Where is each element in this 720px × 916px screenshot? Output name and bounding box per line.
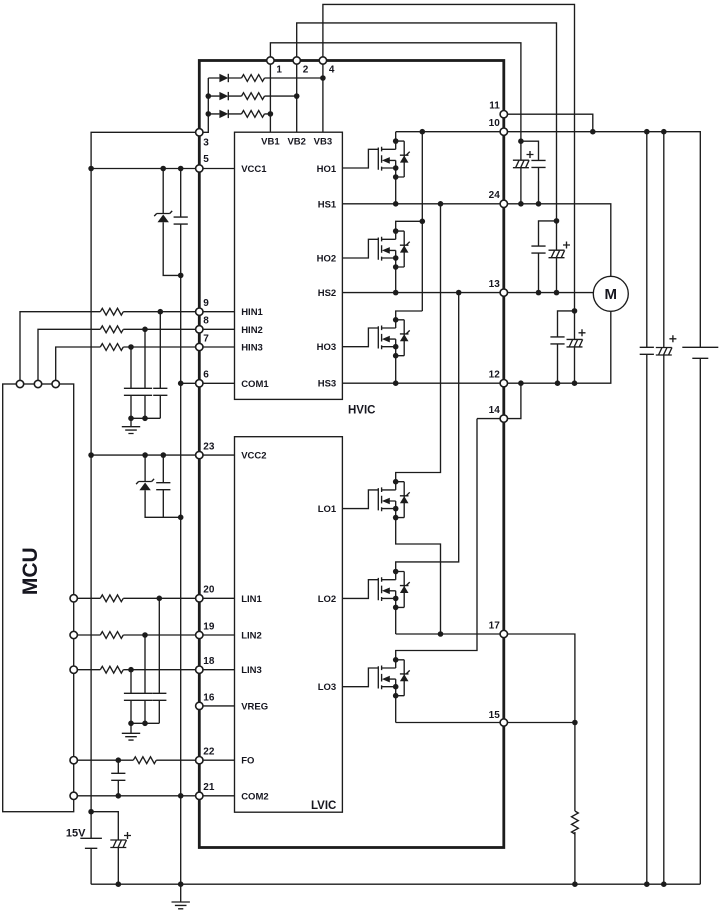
wire HS2 row pin 13 xyxy=(342,292,593,294)
pin 1 xyxy=(267,57,274,64)
capacitor C1 electrolytic bootstrap 1 xyxy=(513,160,529,168)
pin 4 xyxy=(319,57,326,64)
capacitor C7 DC link film xyxy=(640,347,654,354)
ground HIN filter xyxy=(122,418,140,433)
MOSFET Q2 (HO2 high side) xyxy=(342,219,425,296)
wire P drop to HO2/HO3 drains xyxy=(421,132,423,311)
resistor R10 shunt xyxy=(572,811,579,834)
wire pin 15 row xyxy=(396,722,575,724)
pin 17 xyxy=(500,630,507,637)
module boundary IPM xyxy=(199,61,504,848)
resistor R2 bootstrap xyxy=(242,93,265,100)
pin 19 xyxy=(196,631,203,638)
wire shunt leg to N rail xyxy=(574,723,576,885)
svg-text:VB2: VB2 xyxy=(287,137,305,148)
svg-text:12: 12 xyxy=(489,370,501,381)
MCU terminals xyxy=(16,380,77,799)
pin 16 xyxy=(196,702,203,709)
ground LIN filter xyxy=(122,723,140,740)
svg-text:20: 20 xyxy=(203,585,215,596)
svg-text:VCC1: VCC1 xyxy=(241,164,267,175)
diode D1 bootstrap xyxy=(219,74,228,82)
capacitor C12 HIN3 filter xyxy=(124,388,138,395)
wire HIN1 row pin 9 xyxy=(20,312,235,384)
capacitor C16 LIN3 filter xyxy=(124,693,138,700)
resistor R6 HIN3 xyxy=(100,344,123,351)
pin 6 xyxy=(196,380,203,387)
svg-text:COM1: COM1 xyxy=(241,379,269,390)
wire VCC1 row pin 5 xyxy=(91,168,234,170)
wire DC link electrolytic leads xyxy=(663,132,665,885)
svg-text:VB3: VB3 xyxy=(314,137,332,148)
wire HIN2 row pin 8 xyxy=(38,329,235,384)
svg-text:FO: FO xyxy=(241,756,254,767)
svg-text:13: 13 xyxy=(489,279,501,290)
pin number labels xyxy=(203,65,500,794)
pin 13 xyxy=(500,289,507,296)
capacitor C8 DC link electrolytic xyxy=(656,348,672,356)
svg-text:VB1: VB1 xyxy=(261,137,280,148)
IC pin name labels xyxy=(241,137,337,803)
svg-text:HO1: HO1 xyxy=(317,164,337,175)
resistor R3 bootstrap xyxy=(242,111,265,118)
motor M xyxy=(593,276,628,311)
zener D4 VCC1 clamp xyxy=(154,169,181,276)
resistor R9 LIN3 xyxy=(100,666,123,673)
resistor R5 HIN2 xyxy=(100,326,123,333)
wire VB1 net: pin 1 loop to bootstrap cap 1 xyxy=(270,43,521,141)
svg-text:15: 15 xyxy=(489,710,501,721)
svg-text:VREG: VREG xyxy=(241,701,268,712)
svg-text:21: 21 xyxy=(203,782,215,793)
svg-text:6: 6 xyxy=(203,370,209,381)
pin 23 xyxy=(196,451,203,458)
svg-text:7: 7 xyxy=(203,334,209,345)
capacitor C4 electrolytic bootstrap 2 xyxy=(549,250,565,258)
svg-text:18: 18 xyxy=(203,656,215,667)
resistor R4 HIN1 xyxy=(100,308,123,315)
svg-text:4: 4 xyxy=(329,65,335,76)
diode D2 bootstrap xyxy=(219,92,228,100)
svg-text:22: 22 xyxy=(203,747,215,758)
LVIC U2 box xyxy=(235,437,343,813)
pin 9 xyxy=(196,308,203,315)
capacitor C2 bootstrap 1 xyxy=(531,160,545,167)
wire bootstrap cap pair 1 leads xyxy=(521,141,539,204)
capacitor C14 LIN1 filter xyxy=(152,693,166,700)
wire LIN3 row pin 18 xyxy=(74,669,235,671)
pin 18 xyxy=(196,666,203,673)
svg-text:HS1: HS1 xyxy=(318,199,337,210)
svg-text:COM2: COM2 xyxy=(241,791,268,802)
svg-text:5: 5 xyxy=(203,154,209,165)
wire COM1 row pin 6 xyxy=(181,382,235,384)
svg-text:24: 24 xyxy=(489,190,501,201)
wire 15V supply node xyxy=(91,812,118,885)
pin 5 xyxy=(196,165,203,172)
wire pin 14 jog to HS3 xyxy=(477,383,521,418)
svg-text:HIN1: HIN1 xyxy=(241,307,263,318)
svg-text:LO2: LO2 xyxy=(318,594,336,605)
pin circles on module boundary xyxy=(196,57,508,800)
wire HIN3 row pin 7 xyxy=(56,347,235,384)
MOSFET Q5 (LO2 low side) xyxy=(342,290,461,634)
pin 3 xyxy=(196,129,203,136)
svg-text:8: 8 xyxy=(203,316,209,327)
svg-text:17: 17 xyxy=(489,620,501,631)
wire LIN filter cap legs xyxy=(131,598,159,723)
svg-text:LIN2: LIN2 xyxy=(241,631,262,642)
svg-text:LIN1: LIN1 xyxy=(241,594,262,605)
wire COM2 row pin 21 xyxy=(74,795,235,797)
svg-text:HVIC: HVIC xyxy=(348,405,375,417)
wire bootstrap cap pair 3 leads xyxy=(558,311,575,383)
wire bootstrap row 1 xyxy=(208,77,323,79)
capacitor C6 electrolytic bootstrap 3 xyxy=(567,339,583,347)
pin 8 xyxy=(196,326,203,333)
wire bootstrap cap pair 2 leads xyxy=(539,221,557,293)
svg-text:2: 2 xyxy=(303,65,309,76)
wire VREG row pin 16 xyxy=(199,705,234,707)
svg-text:HO2: HO2 xyxy=(317,254,337,265)
svg-text:23: 23 xyxy=(203,442,215,453)
resistor R1 bootstrap xyxy=(242,75,265,82)
svg-text:11: 11 xyxy=(489,101,500,112)
capacitor C18 electrolytic 15V xyxy=(110,840,126,848)
svg-text:19: 19 xyxy=(203,621,215,632)
svg-text:15V: 15V xyxy=(66,828,86,840)
resistor R8 LIN2 xyxy=(100,632,123,639)
svg-text:10: 10 xyxy=(489,118,501,129)
ground main xyxy=(172,884,190,909)
resistor R7 LIN1 xyxy=(100,595,123,602)
wire N rail bottom xyxy=(91,883,700,885)
wire LIN1 row pin 20 xyxy=(74,597,235,599)
pin 11 xyxy=(500,111,507,118)
pin 2 xyxy=(293,57,300,64)
svg-text:HS2: HS2 xyxy=(318,288,336,299)
wire bootstrap common from pin 3 xyxy=(199,78,208,132)
svg-text:1: 1 xyxy=(276,65,282,76)
svg-text:LO3: LO3 xyxy=(318,682,336,693)
svg-text:16: 16 xyxy=(203,692,215,703)
svg-text:MCU: MCU xyxy=(19,547,42,595)
wire DC link film cap leads xyxy=(646,132,648,885)
capacitor C15 LIN2 filter xyxy=(138,693,152,700)
MOSFET Q3 (HO3 high side) xyxy=(342,311,422,386)
pin 7 xyxy=(196,343,203,350)
svg-text:3: 3 xyxy=(203,138,209,149)
wire VCC rail from pin 3 xyxy=(91,132,199,811)
pin 24 xyxy=(500,200,507,207)
capacitor C11 HIN2 filter xyxy=(138,388,152,395)
wire HIN filter cap legs xyxy=(131,312,160,419)
svg-text:LO1: LO1 xyxy=(318,504,337,515)
wire pin 11 jog to P rail xyxy=(504,114,593,132)
capacitor C3 bootstrap 2 xyxy=(531,246,545,253)
op. MOSFET Q1 (HO1 high side) xyxy=(342,132,409,207)
wire pin 17 row xyxy=(396,634,575,723)
svg-text:LIN3: LIN3 xyxy=(241,665,262,676)
wire LIN2 row pin 19 xyxy=(74,634,235,636)
pin 20 xyxy=(196,595,203,602)
MOSFET Q6 (LO3 low side) xyxy=(342,419,477,723)
wire VB3 net: pin 4 loop to bootstrap cap 3 xyxy=(323,4,575,311)
wire bootstrap row 2 xyxy=(208,95,296,97)
wire VCC2 row pin 23 xyxy=(91,454,234,456)
HVIC U1 box xyxy=(235,132,343,399)
battery B1 DC bus xyxy=(682,347,718,884)
capacitor C13 VCC2 xyxy=(156,455,170,517)
svg-text:14: 14 xyxy=(489,405,501,416)
svg-text:HS3: HS3 xyxy=(318,379,336,390)
capacitor C9 VCC1 xyxy=(174,169,188,276)
svg-text:9: 9 xyxy=(203,298,209,309)
battery 15V xyxy=(80,812,102,885)
capacitor C17 FO filter xyxy=(111,760,125,796)
MCU box xyxy=(3,384,74,812)
svg-text:M: M xyxy=(605,286,618,303)
pin 10 xyxy=(500,128,507,135)
pin 22 xyxy=(196,757,203,764)
svg-text:HO3: HO3 xyxy=(317,342,337,353)
wire VB2 net: pin 2 loop to bootstrap cap 2 xyxy=(297,23,557,221)
svg-text:LVIC: LVIC xyxy=(311,800,336,812)
wire bootstrap row 3 xyxy=(208,113,270,115)
pin 21 xyxy=(196,792,203,799)
capacitor C10 HIN1 filter xyxy=(153,388,167,395)
svg-text:HIN2: HIN2 xyxy=(241,325,263,336)
wire HS3 row pin 12 xyxy=(342,311,610,383)
svg-text:VCC2: VCC2 xyxy=(241,451,266,462)
wire HS1 row pin 24 xyxy=(342,204,610,276)
MOSFET Q4 (LO1 low side) xyxy=(342,201,443,637)
wire P rail (pin 10 row) xyxy=(396,132,701,348)
diode D3 bootstrap xyxy=(219,110,228,118)
resistor R11 FO pull-up xyxy=(133,757,156,764)
wire COM rail xyxy=(180,275,182,884)
zener D5 VCC2 clamp xyxy=(136,455,181,517)
capacitor C5 bootstrap 3 xyxy=(550,337,564,344)
svg-text:HIN3: HIN3 xyxy=(241,343,263,354)
pin 12 xyxy=(500,380,507,387)
wire FO row pin 22 xyxy=(74,759,235,761)
pin 15 xyxy=(500,719,507,726)
pin 14 xyxy=(500,415,507,422)
